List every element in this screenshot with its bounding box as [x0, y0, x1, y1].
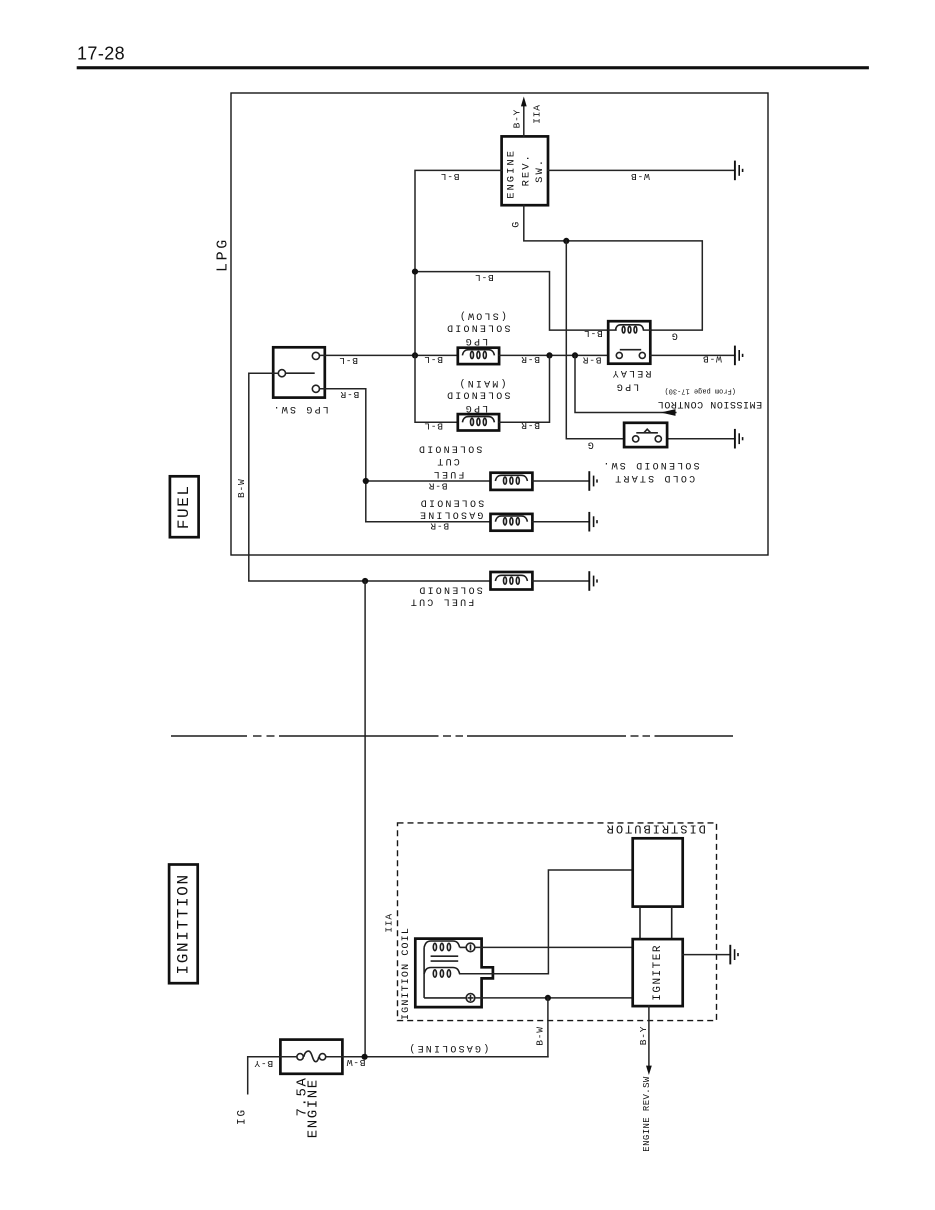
svg-text:B-Y: B-Y	[638, 1026, 649, 1046]
switch COLD START SOLENOID SW.	[624, 423, 667, 447]
svg-text:SOLENOID SW.: SOLENOID SW.	[601, 459, 699, 470]
svg-text:B-L: B-L	[339, 355, 359, 366]
header rule	[77, 66, 869, 69]
svg-text:LPG: LPG	[464, 402, 489, 413]
wire B-Y to IIA with arrow up	[521, 97, 527, 137]
wire secondary HT lead to distributor	[460, 870, 633, 974]
distributor IIA dashed boundary	[398, 823, 717, 1021]
wire B-W from fuse to ignition coil	[326, 1056, 548, 1058]
svg-text:FUEL: FUEL	[175, 484, 193, 529]
svg-text:B-L: B-L	[440, 171, 460, 182]
ground G1 (engine rev sw)	[735, 161, 743, 181]
node E junction	[363, 478, 369, 484]
transformer ignition coil T1	[415, 939, 493, 1008]
node F junction	[362, 578, 368, 584]
wire B-L from ENGINE REV SW to node A	[415, 170, 502, 355]
distributor head box	[633, 838, 683, 906]
svg-text:SOLENOID: SOLENOID	[417, 584, 483, 595]
label LPG SOLENOID (SLOW)	[445, 310, 511, 347]
svg-text:LPG: LPG	[615, 381, 640, 392]
solenoid LPG SOLENOID (MAIN) L2	[458, 414, 499, 430]
svg-text:ENGINE: ENGINE	[505, 149, 517, 199]
wire B-R from LPG SW to fuel cut and gasoline solenoids	[320, 389, 366, 522]
wire B-L branch to LPG (MAIN) solenoid	[415, 355, 458, 422]
switch LPG SW.	[273, 347, 325, 397]
svg-text:SOLENOID: SOLENOID	[417, 443, 483, 454]
solenoid GASOLINE SOLENOID L4	[491, 514, 533, 531]
svg-text:B-L: B-L	[423, 354, 443, 365]
svg-text:B-W: B-W	[236, 479, 247, 499]
svg-text:SOLENOID: SOLENOID	[445, 389, 511, 400]
solenoid LPG SOLENOID (SLOW) L1	[458, 348, 499, 364]
section label FUEL	[170, 476, 199, 537]
svg-text:ENGINE: ENGINE	[306, 1078, 322, 1138]
ground G7 (igniter)	[730, 945, 738, 965]
svg-text:FUEL CUT: FUEL CUT	[409, 595, 475, 606]
svg-text:W-B: W-B	[630, 171, 650, 182]
label COLD START SOLENOID SW.	[601, 459, 699, 483]
svg-text:G: G	[587, 438, 594, 449]
wire cold start solenoid sw to ground	[667, 438, 735, 440]
wire B-Y from igniter to engine rev sw (arrow down)	[646, 1006, 652, 1075]
node A junction	[412, 269, 418, 275]
section separator chain line	[171, 735, 733, 737]
node C junction	[546, 352, 552, 358]
svg-text:FUEL: FUEL	[432, 468, 465, 479]
svg-text:B-L: B-L	[474, 272, 494, 283]
svg-text:EMISSION CONTROL: EMISSION CONTROL	[657, 398, 762, 409]
wire coil negative terminal to igniter	[475, 946, 633, 948]
wire to ground G5	[532, 521, 589, 523]
wire from emission control with arrow	[575, 355, 676, 416]
label FUEL CUT SOLENOID	[417, 443, 483, 479]
wire W-B from ENGINE REV SW to ground	[548, 169, 735, 171]
wire B-W from coil positive down to fuse node	[547, 998, 549, 1057]
svg-text:IG: IG	[237, 1108, 249, 1125]
svg-text:B-W: B-W	[535, 1026, 546, 1046]
svg-text:B-Y: B-Y	[511, 109, 522, 129]
node J junction	[362, 1054, 368, 1060]
module IGNITER U1	[633, 939, 683, 1006]
svg-text:G: G	[512, 221, 523, 228]
node H junction	[545, 995, 551, 1001]
svg-text:ENGINE REV.SW: ENGINE REV.SW	[642, 1076, 652, 1152]
wire coil positive terminal to igniter	[475, 997, 633, 999]
node B junction main row	[412, 352, 418, 358]
ground G5 (gasoline solenoid)	[589, 512, 597, 532]
svg-text:(GASOLINE): (GASOLINE)	[407, 1042, 489, 1054]
wire distributor to igniter (right)	[671, 907, 673, 940]
wire to ground G4	[532, 480, 589, 482]
wire distributor to igniter (left)	[639, 907, 641, 940]
svg-text:RELAY: RELAY	[610, 367, 651, 378]
svg-text:B-R: B-R	[430, 521, 450, 532]
svg-text:B-R: B-R	[582, 355, 602, 366]
node D junction	[572, 352, 578, 358]
ground G3 (cold start sw)	[735, 429, 743, 449]
svg-text:COLD START: COLD START	[613, 472, 695, 483]
svg-text:LPG: LPG	[464, 335, 489, 346]
svg-text:W-B: W-B	[702, 353, 722, 364]
svg-text:B-R: B-R	[521, 354, 541, 365]
svg-text:17-28: 17-28	[77, 44, 125, 64]
svg-text:B-R: B-R	[340, 389, 360, 400]
svg-text:B-R: B-R	[521, 420, 541, 431]
svg-text:(SLOW): (SLOW)	[458, 310, 507, 322]
wire G from ENGINE REV SW to LPG relay coil	[524, 205, 703, 330]
relay LPG RELAY K1	[608, 321, 650, 364]
svg-text:B-L: B-L	[583, 328, 603, 339]
svg-text:SOLENOID: SOLENOID	[445, 321, 511, 332]
svg-text:GASOLINE: GASOLINE	[418, 509, 484, 520]
wire B-L branch to LPG relay coil	[415, 272, 608, 331]
wire to ground G6	[532, 580, 589, 582]
wire W-B from relay contact to ground	[650, 354, 735, 356]
wire G branch to cold start solenoid sw	[566, 241, 624, 439]
label LPG RELAY	[610, 367, 651, 392]
svg-text:B-L: B-L	[423, 420, 443, 431]
wire B-Y from IG to fuse	[248, 1057, 297, 1094]
switch ENGINE REV. SW.	[502, 136, 548, 205]
wire B-R from slow solenoid to relay	[499, 354, 608, 356]
solenoid FUEL CUT SOLENOID (gasoline engine) L5	[491, 572, 533, 590]
svg-text:SW.: SW.	[534, 158, 546, 183]
section label IGNITION	[169, 865, 198, 984]
wire B-W from LPG SW common to fuel cut (gasoline) row	[249, 373, 491, 581]
ground G4 (fuel cut solenoid)	[589, 471, 597, 491]
svg-text:IIA: IIA	[531, 104, 542, 124]
label FUEL CUT SOLENOID	[409, 584, 483, 607]
wire fuel cut solenoid row	[366, 480, 491, 482]
svg-text:(MAIN): (MAIN)	[457, 377, 506, 389]
ground G6 (fuel cut solenoid, gasoline)	[589, 571, 597, 591]
svg-text:LPG SW.: LPG SW.	[271, 403, 328, 414]
label GASOLINE SOLENOID	[418, 497, 484, 520]
label 7.5A ENGINE	[294, 1076, 321, 1138]
svg-text:LPG: LPG	[215, 237, 232, 272]
svg-text:B-W: B-W	[346, 1057, 366, 1068]
svg-text:B-Y: B-Y	[254, 1058, 274, 1069]
svg-text:IGNITTION: IGNITTION	[174, 873, 192, 974]
svg-text:IGNITER: IGNITER	[652, 944, 664, 1001]
svg-text:REV.: REV.	[520, 153, 532, 186]
svg-text:B-R: B-R	[428, 480, 448, 491]
LPG fuel circuit boundary box	[231, 93, 768, 555]
wire B-R from main solenoid to node C	[499, 355, 549, 422]
node junction on G wire	[563, 238, 569, 244]
svg-text:SOLENOID: SOLENOID	[419, 497, 485, 508]
wire igniter to ground G7	[683, 954, 731, 956]
svg-text:IGNITION COIL: IGNITION COIL	[401, 927, 412, 1020]
svg-text:CUT: CUT	[435, 455, 460, 466]
svg-text:(From page 17-30): (From page 17-30)	[664, 387, 735, 395]
svg-text:IIA: IIA	[384, 913, 395, 933]
wire gasoline solenoid row	[366, 521, 491, 523]
fuse F1 7.5A ENGINE	[280, 1040, 342, 1074]
ground G2 (relay)	[735, 346, 743, 366]
svg-text:DISTRIBUTOR: DISTRIBUTOR	[605, 821, 706, 835]
wire B-L from LPG SW to solenoid LPG (SLOW)	[320, 354, 458, 356]
wire B-W main vertical to ignition section	[364, 581, 366, 1057]
solenoid FUEL CUT SOLENOID L3	[491, 473, 533, 490]
label LPG SOLENOID (MAIN)	[445, 377, 511, 413]
svg-text:G: G	[671, 329, 678, 340]
